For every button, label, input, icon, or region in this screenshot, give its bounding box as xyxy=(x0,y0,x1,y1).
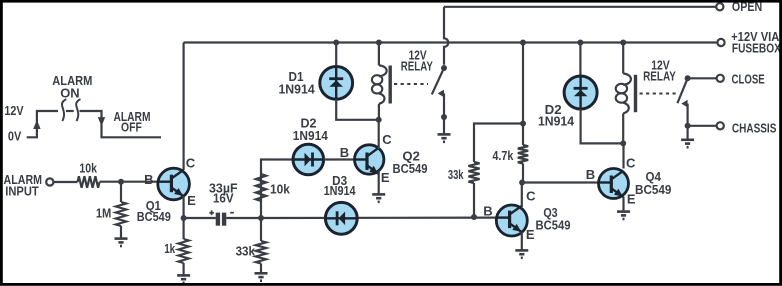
relay-2 switch lever xyxy=(677,78,687,103)
svg-text:C: C xyxy=(186,156,196,171)
resistor 1k xyxy=(183,218,185,239)
node: cap/10k/33k/D3 junction xyxy=(258,215,264,221)
wire: junction to CHASSIS xyxy=(688,125,717,127)
svg-text:1M: 1M xyxy=(96,205,112,220)
capacitor 33uF 16V xyxy=(216,213,220,226)
relay-1 core bar xyxy=(389,66,392,104)
wire: D2 bottom corner xyxy=(581,109,624,143)
svg-text:BC549: BC549 xyxy=(635,182,671,197)
wire: Q4 emitter down xyxy=(622,197,624,212)
ground (33k) xyxy=(255,273,268,280)
diode D2 (Q2 base) xyxy=(293,144,324,175)
resistor 33k (below node) xyxy=(260,218,262,241)
relay-2 core bar xyxy=(634,75,637,112)
alarm waveform trace xyxy=(27,111,58,137)
wire: relay-2 switch to ground xyxy=(686,126,688,140)
svg-text:E: E xyxy=(381,170,390,185)
resistor 33k (Q3 base) xyxy=(468,162,479,183)
svg-text:BC549: BC549 xyxy=(393,161,428,176)
wire: Q3 emitter down xyxy=(521,232,523,250)
wire: Q3 collector to Q4 base xyxy=(522,181,598,183)
svg-text:OFF: OFF xyxy=(121,120,142,135)
svg-text:1N914: 1N914 xyxy=(293,128,329,143)
svg-text:1N914: 1N914 xyxy=(278,81,315,96)
ground (relay-2 switch) xyxy=(681,140,694,147)
node: relay-2 coil bottom junction xyxy=(620,140,626,146)
svg-text:12V: 12V xyxy=(4,103,23,118)
svg-text:16V: 16V xyxy=(213,191,234,206)
ground (1k) xyxy=(177,275,190,282)
transistor Q3 xyxy=(496,205,527,236)
svg-text:1N914: 1N914 xyxy=(538,114,575,129)
wire: C1 to 10k/33k node xyxy=(226,217,261,219)
wire: Q1 emitter to node xyxy=(183,196,185,218)
wire: relay-2 coil top xyxy=(622,43,624,74)
wire: 10k top corner to D2 xyxy=(261,160,293,219)
svg-text:E: E xyxy=(526,227,535,242)
svg-text:ON: ON xyxy=(60,85,79,100)
transistor Q2 xyxy=(355,145,384,174)
node: relay-2 switch common xyxy=(685,75,691,81)
svg-text:C: C xyxy=(526,189,536,204)
node: 33k bottom junction xyxy=(471,214,477,220)
svg-text:CLOSE: CLOSE xyxy=(732,72,766,87)
relay-1 actuation dashed line xyxy=(394,83,428,85)
wire: Q3 collector riser xyxy=(521,183,523,208)
node: relay-1 switch common xyxy=(441,65,447,71)
svg-text:1N914: 1N914 xyxy=(324,183,357,198)
node: relay-1 switch bottom xyxy=(441,114,447,120)
diode D3 xyxy=(325,202,357,234)
terminal: ALARM INPUT xyxy=(46,178,53,185)
node: Q1 emitter junction xyxy=(181,215,187,221)
alarm waveform rising-edge arrow xyxy=(33,120,40,129)
ground (Q3 emitter) xyxy=(515,250,528,257)
ground (Q4 emitter) xyxy=(617,212,630,219)
relay coil 2 xyxy=(623,74,631,85)
alarm waveform falling-edge arrow xyxy=(98,117,105,126)
alarm waveform break marks xyxy=(62,99,66,121)
node: Q2 collector/relay-1/D1 junction xyxy=(376,117,382,123)
node: relay-2 switch to chassis junction xyxy=(685,123,691,129)
relay-2 actuation dashed line xyxy=(640,93,677,95)
svg-text:CHASSIS: CHASSIS xyxy=(732,120,777,135)
svg-text:10k: 10k xyxy=(79,160,97,175)
svg-text:10k: 10k xyxy=(270,181,291,196)
ground (1M) xyxy=(115,239,128,246)
label - (cap) xyxy=(230,212,234,214)
label + (cap) xyxy=(209,210,214,215)
svg-text:RELAY: RELAY xyxy=(401,59,433,74)
wire: +12V riser to 4.7k xyxy=(522,43,524,124)
wire: Q4 collector riser xyxy=(622,143,624,168)
node: D1 to +12V rail junction xyxy=(333,40,339,46)
resistor 1M xyxy=(120,182,122,202)
wire: relay-1 switch riser with hop over +12V rail xyxy=(444,7,448,65)
wire: relay-2 coil bottom xyxy=(622,113,624,143)
ground (Q2 emitter) xyxy=(372,194,385,201)
wire: Q1 emitter to C1 xyxy=(184,217,216,219)
wire: Q1 collector riser xyxy=(183,43,185,171)
node: Q3 collector junction xyxy=(519,180,525,186)
wire: Q2 emitter down xyxy=(378,171,380,194)
svg-text:BC549: BC549 xyxy=(137,209,171,224)
node: relay-1 coil to +12V rail junction xyxy=(376,40,382,46)
svg-text:4.7k: 4.7k xyxy=(492,148,514,163)
svg-text:E: E xyxy=(187,193,196,208)
resistor 10k (input) xyxy=(78,176,100,188)
svg-text:33k: 33k xyxy=(448,167,464,182)
wire: relay-1 switch to ground xyxy=(443,117,445,134)
relay-2 switch contact xyxy=(681,100,687,108)
wire: Q2 collector riser xyxy=(378,120,380,149)
svg-text:B: B xyxy=(144,172,153,187)
svg-text:B: B xyxy=(340,145,349,160)
terminal OPEN xyxy=(716,3,723,10)
svg-text:RELAY: RELAY xyxy=(643,69,676,84)
wire: 10k to Q1 base xyxy=(100,181,158,183)
svg-text:C: C xyxy=(626,155,636,170)
relay-1 switch contact xyxy=(438,90,444,98)
transistor Q4 xyxy=(599,169,629,199)
wire: D2 top xyxy=(579,43,581,77)
transistor Q1 xyxy=(158,168,190,200)
wire: D2 to Q2 base xyxy=(324,158,355,160)
svg-text:C: C xyxy=(382,132,392,147)
relay-1 switch lever xyxy=(432,68,444,94)
svg-text:0V: 0V xyxy=(8,128,22,143)
wire: relay-1 coil bottom xyxy=(378,104,380,120)
terminal +12V VIA FUSEBOX xyxy=(717,39,724,46)
diode D1 xyxy=(320,67,353,100)
wire: relay-1 coil top xyxy=(378,43,380,66)
node: Q1 base junction xyxy=(118,179,124,185)
wire: 33k top feed xyxy=(474,124,523,163)
wire: alarm input to 10k xyxy=(53,181,77,183)
wire: D3 line from node to Q3 base xyxy=(261,217,496,220)
ground (relay-1 switch) xyxy=(438,134,451,141)
terminal CHASSIS xyxy=(717,122,724,129)
node: D2 to +12V rail junction xyxy=(577,40,583,46)
relay coil 1 xyxy=(379,65,387,76)
wire: D1 top xyxy=(335,43,337,67)
svg-text:33k: 33k xyxy=(236,244,256,259)
node: relay-2 coil to +12V rail junction xyxy=(620,40,626,46)
node: 4.7k/33k junction xyxy=(520,121,526,127)
svg-text:1k: 1k xyxy=(164,241,176,256)
wire: OPEN rail from relay-1 switch to OPEN terminal xyxy=(444,6,716,8)
resistor 4.7k xyxy=(522,124,524,146)
svg-text:INPUT: INPUT xyxy=(5,183,39,198)
svg-text:B: B xyxy=(483,204,492,219)
diode D2 (relay 2) xyxy=(564,76,597,109)
terminal CLOSE xyxy=(717,75,724,82)
svg-text:FUSEBOX: FUSEBOX xyxy=(732,41,781,56)
resistor 10k (Q2 base) xyxy=(256,174,266,201)
wire: +12V supply rail xyxy=(184,41,718,43)
node: divider riser to +12V rail junction xyxy=(520,40,526,46)
svg-text:BC549: BC549 xyxy=(536,218,571,233)
wire: switch-2 common to CLOSE xyxy=(688,77,717,79)
wire: D1 bottom to junction xyxy=(336,99,379,120)
svg-text:B: B xyxy=(586,167,595,182)
